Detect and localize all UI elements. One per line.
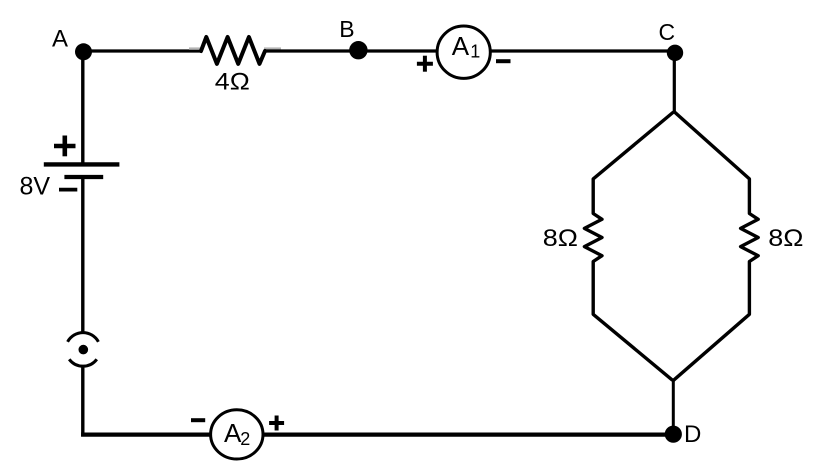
wire top: ammeter A1 to node C — [492, 49, 676, 52]
svg-text:8Ω: 8Ω — [543, 225, 578, 252]
node D — [665, 426, 682, 443]
key (plug key) top arc — [68, 333, 99, 342]
gray highlight right of resistor — [264, 47, 281, 49]
svg-text:D: D — [684, 421, 701, 448]
svg-text:A: A — [52, 26, 68, 53]
battery 8V short plate — [64, 175, 103, 179]
svg-text:C: C — [659, 19, 676, 45]
node A — [75, 43, 92, 60]
left branch: diagonal, lead, resistor 8ohm, lead, diagonal to bottom junction — [584, 112, 673, 380]
key bottom arc — [69, 359, 97, 366]
key center dot — [79, 345, 89, 355]
right branch: diagonal, lead, resistor 8ohm, lead, diagonal to bottom junction — [674, 112, 759, 380]
svg-text:1: 1 — [470, 42, 480, 62]
wire left: battery to key — [81, 177, 84, 334]
wire bottom: left corner to ammeter A2 — [81, 433, 210, 437]
ammeter A2 circle — [211, 410, 263, 459]
plus sign above battery — [54, 144, 76, 149]
node B — [349, 41, 367, 59]
minus sign below battery — [59, 188, 77, 192]
svg-text:A: A — [452, 31, 470, 61]
svg-text:A: A — [224, 418, 242, 448]
svg-text:2: 2 — [240, 429, 250, 449]
wire: node C down to split — [673, 53, 676, 113]
minus sign at A2 left — [191, 418, 205, 422]
battery 8V long plate — [44, 162, 120, 166]
ammeter A1 circle — [437, 26, 490, 78]
svg-text:8V: 8V — [20, 172, 51, 200]
svg-text:8Ω: 8Ω — [768, 225, 803, 252]
wire: bottom junction down to node D — [672, 379, 675, 434]
wire top: resistor R1 to ammeter A1 — [265, 49, 436, 52]
wire left: node A down to battery top plate — [81, 52, 84, 165]
gray highlight left of resistor — [189, 47, 201, 49]
wire left: key to bottom wire — [81, 366, 84, 436]
svg-text:4Ω: 4Ω — [215, 69, 250, 96]
minus sign at A1 right — [496, 59, 511, 63]
plus sign at A1 left — [417, 62, 433, 66]
resistor R1 4ohm zigzag — [201, 37, 265, 64]
plus sign at A2 right — [269, 421, 284, 425]
wire top: node A to resistor R1 left lead — [84, 49, 202, 52]
node C — [667, 45, 683, 61]
svg-text:B: B — [339, 16, 354, 42]
wire bottom: ammeter A2 to node D — [264, 433, 674, 437]
